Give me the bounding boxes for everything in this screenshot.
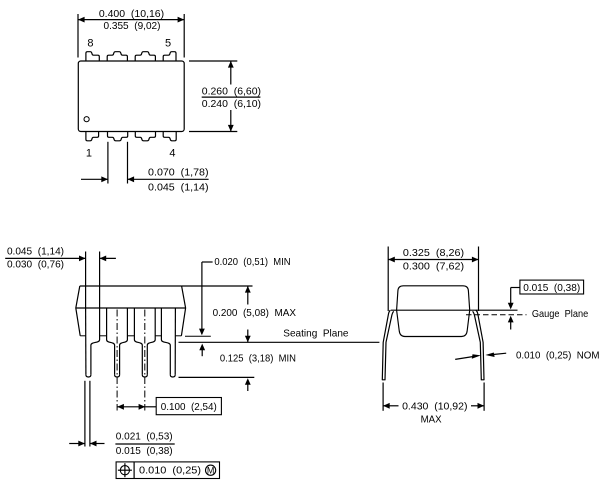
svg-text:8: 8 — [87, 38, 93, 50]
svg-text:0.200 (5,08) MAX: 0.200 (5,08) MAX — [213, 307, 296, 319]
svg-text:0.021 (0,53): 0.021 (0,53) — [116, 431, 173, 443]
svg-text:0.240 (6,10): 0.240 (6,10) — [202, 98, 261, 110]
svg-text:0.010 (0,25): 0.010 (0,25) — [139, 464, 201, 476]
svg-text:0.010 (0,25) NOM: 0.010 (0,25) NOM — [516, 350, 600, 362]
svg-text:0.030 (0,76): 0.030 (0,76) — [7, 259, 64, 271]
svg-text:0.020 (0,51) MIN: 0.020 (0,51) MIN — [214, 256, 290, 268]
svg-text:MAX: MAX — [421, 413, 442, 425]
svg-text:0.015 (0,38): 0.015 (0,38) — [116, 445, 173, 457]
svg-text:0.100 (2,54): 0.100 (2,54) — [161, 401, 217, 413]
svg-text:0.430 (10,92): 0.430 (10,92) — [402, 401, 467, 413]
svg-text:0.125 (3,18) MIN: 0.125 (3,18) MIN — [220, 352, 296, 364]
svg-text:0.355 (9,02): 0.355 (9,02) — [104, 20, 161, 32]
svg-text:5: 5 — [165, 38, 171, 50]
svg-text:0.045 (1,14): 0.045 (1,14) — [148, 182, 209, 194]
svg-text:M: M — [207, 466, 215, 476]
svg-text:Gauge Plane: Gauge Plane — [532, 308, 588, 320]
svg-text:0.015 (0,38): 0.015 (0,38) — [523, 282, 580, 294]
svg-text:0.400 (10,16): 0.400 (10,16) — [99, 8, 164, 20]
svg-text:0.260 (6,60): 0.260 (6,60) — [202, 85, 261, 97]
svg-text:Seating Plane: Seating Plane — [283, 328, 348, 340]
svg-text:4: 4 — [169, 148, 175, 160]
svg-text:0.045 (1,14): 0.045 (1,14) — [7, 246, 64, 258]
svg-text:1: 1 — [86, 148, 92, 160]
svg-text:0.325 (8,26): 0.325 (8,26) — [403, 247, 464, 259]
svg-text:0.300 (7,62): 0.300 (7,62) — [403, 260, 464, 272]
svg-text:0.070 (1,78): 0.070 (1,78) — [148, 166, 209, 178]
